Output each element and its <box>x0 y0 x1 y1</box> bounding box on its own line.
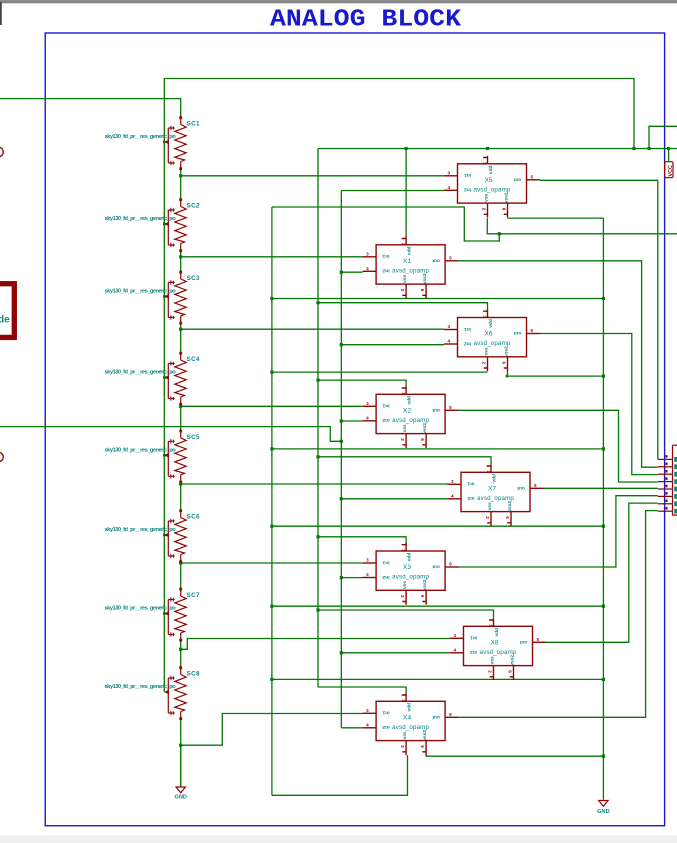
svg-text:vss: vss <box>491 656 496 664</box>
junction VDD bus <box>316 379 319 382</box>
labels inside X4 <box>382 703 440 741</box>
junction GND mid bus <box>270 371 273 374</box>
pin 1 vdd (top) of X7 <box>487 464 491 472</box>
pin 3 in1 of X4 <box>363 712 377 714</box>
svg-text:6: 6 <box>508 670 513 673</box>
wire in2 to X1 <box>341 271 362 273</box>
svg-text:vss2: vss2 <box>507 501 513 512</box>
wire resistor chain segment 4 <box>180 404 182 431</box>
svg-text:4: 4 <box>448 185 451 190</box>
svg-text:3: 3 <box>454 633 457 638</box>
wire resistor chain segment 5 <box>180 482 182 511</box>
pin 4 in2 of X2 <box>363 420 377 422</box>
svg-text:vss: vss <box>403 424 408 432</box>
connector pin name stub 1 <box>674 457 677 462</box>
wire out X3 to pin6 <box>459 496 658 567</box>
pin 6 vss2 (bottom) of X7 <box>507 512 511 526</box>
wire VDD bus vertical <box>317 149 319 688</box>
pin 1 vdd (top) of X3 <box>402 543 406 551</box>
svg-text:1: 1 <box>483 316 488 319</box>
ground GND (left, resistor chain) <box>176 787 185 793</box>
pin 2 vss (bottom) of X4 <box>402 741 406 755</box>
svg-text:5: 5 <box>537 637 540 642</box>
svg-text:sky130_fd_pr__res_generic_po: sky130_fd_pr__res_generic_po <box>105 684 177 690</box>
svg-text:X5: X5 <box>484 177 492 184</box>
junction chain tap SC8 <box>179 744 182 747</box>
pin 1 vdd (top) of X4 <box>402 693 406 701</box>
wire in2 to X2 <box>341 420 362 422</box>
connector pin name stub 8 <box>674 509 677 514</box>
resistor SC4 (sky130 generic poly res) <box>164 352 186 406</box>
pin 1 vdd (top) of X8 <box>489 618 493 626</box>
svg-text:in1: in1 <box>470 635 477 641</box>
svg-text:out: out <box>432 257 440 263</box>
svg-text:4: 4 <box>451 493 454 498</box>
wire tap SC5 to X7 in1 <box>181 483 448 485</box>
svg-text:2: 2 <box>400 745 405 748</box>
svg-text:5: 5 <box>449 405 452 410</box>
junction in2 bus <box>340 576 343 579</box>
junction VDD horizontal <box>647 147 650 150</box>
wire X8 vss to rails <box>272 678 604 680</box>
svg-text:in1: in1 <box>382 559 389 565</box>
wire resistor body bus / VDD riser <box>164 79 634 693</box>
pin 3 in1 of X3 <box>363 562 377 564</box>
connector pin name stub 2 <box>674 464 677 469</box>
svg-text:in2: in2 <box>382 268 389 274</box>
svg-text:vss: vss <box>403 581 408 589</box>
wire out X2 to pin4 <box>459 410 658 482</box>
svg-text:ANALOG BLOCK: ANALOG BLOCK <box>270 7 461 34</box>
svg-text:5: 5 <box>449 255 452 260</box>
wire GND mid bus bottom link to X4 vss <box>272 755 408 795</box>
pin 2 vss (bottom) of X5 <box>484 203 488 217</box>
op-amp X8 (avsd_opamp) <box>450 618 546 680</box>
junction chain tap SC1 <box>179 174 182 177</box>
svg-text:vdd: vdd <box>488 319 494 328</box>
wire X2 vss to rails <box>272 448 604 450</box>
junction chain tap SC6 <box>179 561 182 564</box>
svg-text:avsd_opamp: avsd_opamp <box>474 340 511 347</box>
wire tap SC1 to X5 in1 <box>181 175 444 177</box>
svg-text:de: de <box>0 315 10 326</box>
junction VDD horizontal <box>486 147 489 150</box>
wire vdd to X6 <box>318 303 488 311</box>
svg-text:2: 2 <box>400 438 405 441</box>
svg-text:vss2: vss2 <box>422 730 428 741</box>
svg-text:1: 1 <box>486 470 491 473</box>
svg-text:6: 6 <box>420 595 425 598</box>
pin 3 in1 of X6 <box>444 329 458 331</box>
svg-text:X6: X6 <box>484 331 492 338</box>
pin numbers of X2 <box>366 392 452 441</box>
pin numbers of X1 <box>366 243 452 292</box>
svg-text:vss: vss <box>403 274 408 282</box>
svg-text:vss2: vss2 <box>510 655 516 666</box>
junction in2 bus <box>340 497 343 500</box>
labels inside X2 <box>382 396 440 434</box>
svg-text:out: out <box>513 177 521 183</box>
pin 1 vdd (top) of X6 <box>483 310 487 318</box>
junction GND mid bus <box>270 525 273 528</box>
connector pin 8 <box>658 510 673 512</box>
svg-text:2: 2 <box>482 362 487 365</box>
wire out X8 to pin7 <box>546 503 658 642</box>
svg-text:in1: in1 <box>464 172 471 178</box>
wire in2 to X7 <box>341 498 447 500</box>
junction chain tap SC4 <box>179 405 182 408</box>
junction GND mid bus <box>270 605 273 608</box>
junction GND rail <box>602 755 605 758</box>
junction body pin SC4 <box>163 376 166 379</box>
svg-text:in2: in2 <box>464 187 471 193</box>
svg-text:vdd: vdd <box>407 703 413 712</box>
svg-text:X1: X1 <box>403 258 411 265</box>
connector pin name stub 6 <box>674 494 677 499</box>
wire in2 bus to X5 in2 <box>341 190 444 192</box>
pin 1 vdd (top) of X2 <box>402 386 406 394</box>
connector (cut off at right edge) <box>658 445 677 515</box>
svg-text:SC2: SC2 <box>187 203 201 210</box>
pin 2 vss (bottom) of X3 <box>402 590 406 604</box>
svg-text:vss2: vss2 <box>504 346 510 357</box>
svg-text:vss2: vss2 <box>422 423 428 434</box>
svg-text:sky130_fd_pr__res_generic_po: sky130_fd_pr__res_generic_po <box>105 370 177 376</box>
wire X5 vss down-right off-sheet <box>487 218 677 234</box>
svg-text:5: 5 <box>534 483 537 488</box>
svg-text:SC6: SC6 <box>187 514 201 521</box>
labels inside X6 <box>464 319 522 357</box>
wire vdd to X2 <box>318 380 406 386</box>
pin 2 vss (bottom) of X8 <box>490 666 494 680</box>
svg-text:1: 1 <box>401 699 406 702</box>
svg-text:3: 3 <box>366 401 369 406</box>
svg-text:avsd_opamp: avsd_opamp <box>480 649 517 656</box>
svg-text:vdd: vdd <box>492 474 498 483</box>
junction VDD bus <box>316 455 319 458</box>
svg-text:SC3: SC3 <box>187 275 201 282</box>
pin 6 vss2 (bottom) of X6 <box>504 357 508 371</box>
wire vdd to X4 <box>318 687 406 693</box>
wire resistor chain segment 6 <box>180 562 182 590</box>
pin 5 out of X5 <box>527 179 541 181</box>
svg-text:in2: in2 <box>470 649 477 655</box>
wire vdd to X1 <box>405 149 407 237</box>
wire VDD branch off-sheet top right <box>649 126 677 148</box>
junction VDD horizontal <box>405 147 408 150</box>
junction in2 bus <box>340 271 343 274</box>
svg-text:1: 1 <box>483 162 488 165</box>
wire VCC drop <box>668 149 670 162</box>
svg-text:6: 6 <box>420 745 425 748</box>
svg-text:avsd_opamp: avsd_opamp <box>392 574 429 581</box>
svg-text:vss: vss <box>403 731 408 739</box>
resistor SC3 (sky130 generic poly res) <box>164 271 186 325</box>
svg-text:4: 4 <box>454 647 457 652</box>
junction GND mid bus <box>270 447 273 450</box>
pin numbers of X6 <box>448 316 534 365</box>
wire analog input from left edge <box>0 427 341 442</box>
wire chain bottom to GND <box>180 745 182 787</box>
junction VDD bus <box>316 535 319 538</box>
svg-text:2: 2 <box>400 289 405 292</box>
svg-text:X3: X3 <box>403 564 411 571</box>
wire GND rail vertical <box>602 218 604 800</box>
connector pin 6 <box>658 495 673 497</box>
pin 4 in2 of X6 <box>444 343 458 345</box>
pin 5 out of X3 <box>445 566 459 568</box>
svg-text:sky130_fd_pr__res_generic_po: sky130_fd_pr__res_generic_po <box>105 606 177 612</box>
junction body pin SC1 <box>163 141 166 144</box>
wire out X4 to pin8 <box>459 511 658 718</box>
svg-text:SC7: SC7 <box>187 592 201 599</box>
pin 4 in2 of X1 <box>363 270 377 272</box>
wire VDD main horizontal (to VCC and off-sheet) <box>318 148 677 150</box>
wire X7 vss to rails <box>272 525 604 527</box>
wire X3 vss to rails <box>272 605 604 607</box>
svg-text:out: out <box>432 714 440 720</box>
connector pin name stub 3 <box>674 472 677 477</box>
svg-text:1: 1 <box>401 243 406 246</box>
cut-off module frame at left edge <box>0 284 14 338</box>
junction chain tap SC2 <box>179 255 182 258</box>
wire out X7 to pin5 <box>544 487 658 489</box>
wire in2 to X8 <box>341 652 450 654</box>
pin 5 out of X2 <box>445 409 459 411</box>
wire in2 to X6 <box>341 344 444 346</box>
svg-text:avsd_opamp: avsd_opamp <box>477 495 514 502</box>
pin numbers of X8 <box>454 624 540 673</box>
connector pin 5 <box>658 488 673 490</box>
svg-text:X8: X8 <box>490 639 498 646</box>
op-amp X7 (avsd_opamp) <box>448 464 544 526</box>
pin 1 vdd (top) of X5 <box>483 156 487 164</box>
junction VDD bus <box>316 301 319 304</box>
svg-text:vdd: vdd <box>494 628 500 637</box>
svg-text:avsd_opamp: avsd_opamp <box>392 417 429 424</box>
pin 2 vss (bottom) of X2 <box>402 434 406 448</box>
svg-text:X4: X4 <box>403 714 411 721</box>
svg-text:out: out <box>513 330 521 336</box>
labels inside X1 <box>382 246 440 284</box>
svg-text:3: 3 <box>366 708 369 713</box>
wire resistor chain segment 3 <box>180 323 182 353</box>
svg-text:avsd_opamp: avsd_opamp <box>392 724 429 731</box>
svg-text:vss2: vss2 <box>422 579 428 590</box>
wire tap SC6 to X3 in1 <box>181 562 363 564</box>
wire SC1 top feed from left edge <box>0 99 181 118</box>
svg-text:in1: in1 <box>382 253 389 259</box>
svg-text:in1: in1 <box>464 326 471 332</box>
connector pin 2 <box>658 466 673 468</box>
junction VDD bus <box>316 608 319 611</box>
svg-text:6: 6 <box>420 438 425 441</box>
wire vdd to X3 <box>318 537 406 544</box>
junction in2 bus <box>340 440 343 443</box>
pin 1 vdd (top) of X1 <box>402 237 406 245</box>
wire tap SC8 to X4 in1 <box>181 714 363 746</box>
labels inside X3 <box>382 553 440 591</box>
svg-text:5: 5 <box>531 328 534 333</box>
connector pin 3 <box>658 473 673 475</box>
junction GND rail <box>602 605 605 608</box>
junction body pin SC2 <box>163 223 166 226</box>
pin 6 vss2 (bottom) of X3 <box>422 590 426 604</box>
svg-text:in2: in2 <box>382 724 389 730</box>
wire X4 vss2 to GND rail <box>426 755 603 756</box>
resistor SC8 (sky130 generic poly res) <box>164 666 186 720</box>
svg-text:2: 2 <box>485 516 490 519</box>
svg-text:6: 6 <box>420 289 425 292</box>
junction GND mid bus <box>270 678 273 681</box>
pin numbers of X3 <box>366 549 452 598</box>
svg-text:1: 1 <box>401 392 406 395</box>
pin 5 out of X8 <box>533 641 547 643</box>
pin 5 out of X1 <box>445 260 459 262</box>
svg-text:out: out <box>517 485 525 491</box>
pin 6 vss2 (bottom) of X4 <box>422 741 426 755</box>
svg-text:sky130_fd_pr__res_generic_po: sky130_fd_pr__res_generic_po <box>105 216 177 222</box>
junction X6 vss2 stub <box>506 375 509 378</box>
junction GND rail <box>602 525 605 528</box>
wire GND mid bus top link <box>272 207 499 241</box>
pin 2 vss (bottom) of X1 <box>402 284 406 298</box>
wire tap SC7 to X8 in1 <box>181 639 450 650</box>
supply symbol VCC <box>665 162 673 178</box>
wire resistor chain segment 2 <box>180 251 182 272</box>
pin 3 in1 of X8 <box>450 637 464 639</box>
op-amp X4 (avsd_opamp) <box>363 693 459 755</box>
junction chain tap SC7 <box>179 648 182 651</box>
wire resistor chain segment 7 <box>180 640 182 668</box>
pin 2 vss (bottom) of X7 <box>487 512 491 526</box>
ground GND (right, rail) <box>599 801 608 807</box>
resistor SC7 (sky130 generic poly res) <box>164 588 186 642</box>
svg-text:6: 6 <box>502 208 507 211</box>
op-amp X3 (avsd_opamp) <box>363 543 459 605</box>
pin numbers of X4 <box>366 699 452 748</box>
junction chain tap SC3 <box>179 328 182 331</box>
wire out X5 to pin1 <box>540 180 658 459</box>
svg-text:vss: vss <box>485 347 490 355</box>
svg-text:vdd: vdd <box>488 165 494 174</box>
connector pin name stub 7 <box>674 501 677 506</box>
junction GND rail <box>602 447 605 450</box>
svg-text:GND: GND <box>597 809 609 815</box>
svg-text:3: 3 <box>366 558 369 563</box>
op-amp X1 (avsd_opamp) <box>363 237 459 299</box>
wire GND mid bus vertical <box>271 207 273 795</box>
connector pin 7 <box>658 503 673 505</box>
wire out X6 to pin3 <box>540 334 658 475</box>
svg-text:5: 5 <box>449 712 452 717</box>
junction body pin SC5 <box>163 454 166 457</box>
junction in2 bus <box>340 651 343 654</box>
svg-text:SC5: SC5 <box>187 434 201 441</box>
wire X5 vss2 to GND rail top <box>508 217 604 219</box>
wire resistor chain segment 1 <box>180 169 182 200</box>
junction GND rail <box>602 678 605 681</box>
svg-text:SC4: SC4 <box>187 356 201 363</box>
svg-text:vdd: vdd <box>407 246 413 255</box>
junction chain tap SC5 <box>179 482 182 485</box>
svg-text:SC1: SC1 <box>187 121 201 128</box>
svg-text:4: 4 <box>366 415 369 420</box>
pin 5 out of X7 <box>530 487 544 489</box>
wire in2 to X3 <box>341 577 362 579</box>
junction in2 bus <box>340 419 343 422</box>
svg-text:in2: in2 <box>382 417 389 423</box>
svg-text:in1: in1 <box>467 481 474 487</box>
svg-text:in2: in2 <box>382 574 389 580</box>
pin 6 vss2 (bottom) of X5 <box>504 203 508 217</box>
junction GND mid bus <box>270 297 273 300</box>
svg-text:3: 3 <box>451 479 454 484</box>
svg-text:vdd: vdd <box>407 553 413 562</box>
junction in2 bus <box>340 343 343 346</box>
svg-text:out: out <box>432 407 440 413</box>
svg-text:in1: in1 <box>382 710 389 716</box>
pin 4 in2 of X7 <box>448 498 462 500</box>
pin 6 vss2 (bottom) of X2 <box>422 434 426 448</box>
svg-text:2: 2 <box>482 208 487 211</box>
labels inside X8 <box>470 628 528 666</box>
junction VDD horizontal <box>632 147 635 150</box>
resistor SC5 (sky130 generic poly res) <box>164 430 186 484</box>
pin 4 in2 of X4 <box>363 727 377 729</box>
wire in2 to X4 <box>341 727 362 729</box>
svg-text:SC8: SC8 <box>187 671 201 678</box>
pin 3 in1 of X2 <box>363 405 377 407</box>
svg-text:3: 3 <box>366 251 369 256</box>
op-amp X6 (avsd_opamp) <box>444 310 540 372</box>
pin 4 in2 of X5 <box>444 189 458 191</box>
pin 4 in2 of X3 <box>363 577 377 579</box>
svg-text:1: 1 <box>489 624 494 627</box>
svg-text:2: 2 <box>400 595 405 598</box>
pin 6 vss2 (bottom) of X8 <box>510 666 514 680</box>
pin 5 out of X4 <box>445 716 459 718</box>
svg-text:1: 1 <box>401 549 406 552</box>
pin 4 in2 of X8 <box>450 652 464 654</box>
svg-text:out: out <box>519 639 527 645</box>
svg-text:vss: vss <box>488 502 493 510</box>
svg-text:6: 6 <box>505 516 510 519</box>
svg-text:X7: X7 <box>488 485 496 492</box>
junction body pin SC6 <box>163 534 166 537</box>
pin 6 vss2 (bottom) of X1 <box>422 284 426 298</box>
wire tap SC3 to X6 in1 <box>181 328 444 330</box>
svg-text:in2: in2 <box>467 495 474 501</box>
svg-text:vss: vss <box>485 193 490 201</box>
wire tap SC2 to X1 in1 <box>181 256 363 258</box>
pin numbers of X5 <box>448 162 534 211</box>
svg-text:avsd_opamp: avsd_opamp <box>474 186 511 193</box>
svg-text:5: 5 <box>449 562 452 567</box>
junction VDD horizontal <box>667 147 670 150</box>
op-amp X5 (avsd_opamp) <box>444 156 540 218</box>
svg-text:vdd: vdd <box>407 396 413 405</box>
resistor SC6 (sky130 generic poly res) <box>164 509 186 563</box>
svg-text:sky130_fd_pr__res_generic_po: sky130_fd_pr__res_generic_po <box>105 289 177 295</box>
pin 2 vss (bottom) of X6 <box>484 357 488 371</box>
labels inside X5 <box>464 165 522 203</box>
pin numbers of X7 <box>451 470 537 519</box>
junction X5 vss link <box>498 232 501 235</box>
junction GND rail <box>602 297 605 300</box>
svg-text:avsd_opamp: avsd_opamp <box>392 267 429 274</box>
svg-text:4: 4 <box>366 572 369 577</box>
